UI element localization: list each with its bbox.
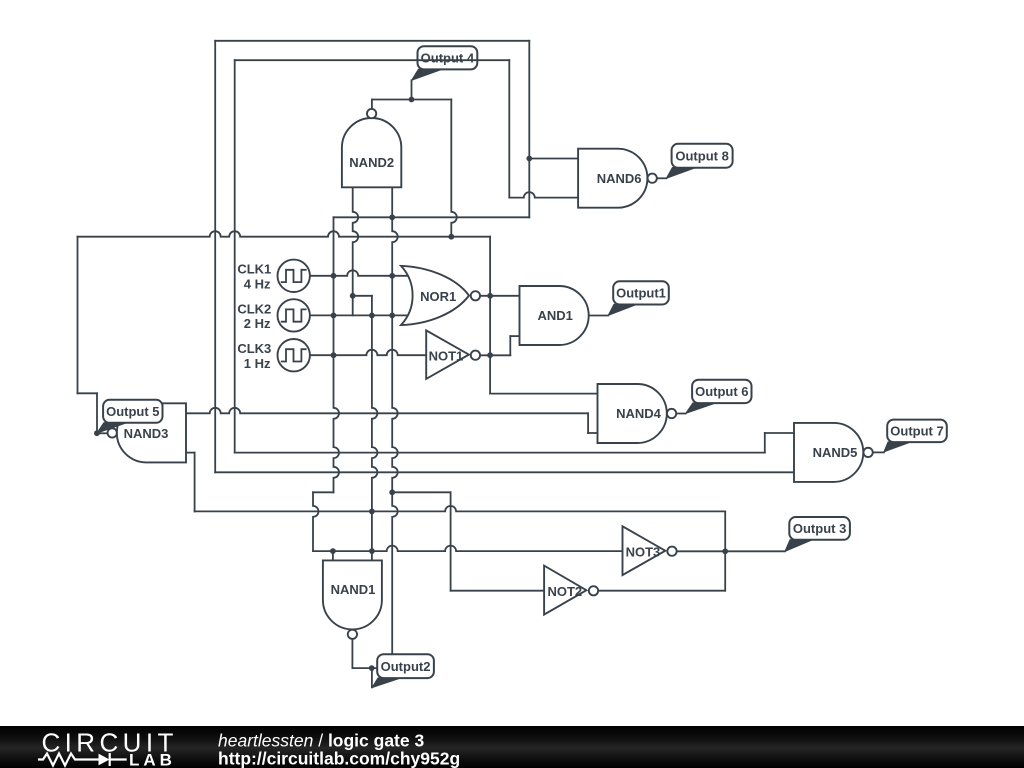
- svg-text:Output 5: Output 5: [106, 404, 159, 419]
- op-amp NAND3 gate: [108, 403, 186, 462]
- wire NOR/NOT output vertical x490: [489, 237, 491, 394]
- junction CLK2/x371: [369, 313, 375, 319]
- clock source CLK3 1Hz: [237, 339, 310, 371]
- op-amp AND1 gate: [520, 286, 589, 345]
- svg-text:NOT1: NOT1: [429, 349, 464, 364]
- flag Output 6: [686, 380, 752, 414]
- svg-text:NAND1: NAND1: [331, 582, 376, 597]
- wire NAND2 output row y99: [372, 99, 451, 101]
- junction NAND6 pin1: [526, 156, 532, 162]
- svg-text:1 Hz: 1 Hz: [244, 356, 271, 371]
- wire bus y236: [78, 231, 491, 236]
- op-amp NOT1 gate: [426, 330, 480, 379]
- svg-text:4 Hz: 4 Hz: [244, 276, 271, 291]
- wire NAND6 output: [657, 177, 667, 179]
- wire NAND3 out feed top: [78, 392, 98, 394]
- svg-text:Output 4: Output 4: [421, 51, 475, 66]
- svg-text:CLK1: CLK1: [237, 262, 271, 277]
- wire NAND2 pin1 chain x352: [353, 187, 359, 315]
- junction NAND1 pin1 bus: [330, 548, 336, 554]
- svg-text:heartlessten / logic gate 3: heartlessten / logic gate 3: [218, 731, 424, 751]
- wire bus y511 to NOT3 vertical: [195, 506, 726, 512]
- wire vertical x234: [234, 60, 236, 452]
- wire NAND6 pin1 y158: [529, 158, 578, 160]
- junction bus511/x371: [369, 509, 375, 515]
- wire NAND4 pin1 y393: [490, 393, 597, 395]
- svg-text:CLK2: CLK2: [237, 301, 271, 316]
- flag Output 5: [97, 400, 163, 433]
- junction CLK1/x333: [331, 273, 337, 279]
- op-amp NAND1 gate: [323, 560, 382, 639]
- wire elbow y492 x313-x333: [313, 491, 334, 493]
- wire Output2 flag stem: [371, 668, 373, 687]
- svg-text:Output 3: Output 3: [793, 521, 846, 536]
- wire NAND4 pin2 y433: [588, 432, 597, 434]
- footer title text: [218, 731, 460, 768]
- svg-text:NAND6: NAND6: [597, 171, 642, 186]
- junction CLK2/x333: [331, 313, 337, 319]
- svg-text:Output1: Output1: [616, 286, 666, 301]
- flag Output2: [372, 654, 434, 687]
- junction bus217/x392: [389, 214, 395, 220]
- junction NOT1 output: [487, 352, 493, 358]
- wire NAND5 jog vertical x764: [764, 433, 766, 453]
- wire NAND5 pin2 bus y472: [215, 471, 794, 473]
- op-amp NOT3 gate: [623, 526, 677, 575]
- wire right vertical x529 to NAND6 pin1: [528, 41, 530, 218]
- junction NOR1 output: [487, 293, 493, 299]
- clock source CLK1 4Hz: [237, 260, 310, 292]
- wire NAND4 output: [676, 413, 686, 415]
- wire AND1 pin2 jog vertical: [509, 336, 511, 355]
- junction node Output4 stem: [409, 97, 415, 103]
- wire NAND3 out feed drop: [96, 393, 98, 433]
- wire NAND1 input bus y551 to NOT3: [313, 546, 623, 552]
- wire NAND6 pin2 drop x509: [508, 60, 510, 197]
- junction x352 elbow: [350, 293, 356, 299]
- CircuitLab logo: [38, 728, 178, 768]
- wire NAND1 output elbow: [352, 640, 371, 669]
- wire Output4 flag stem: [411, 80, 413, 99]
- op-amp NOT2 gate: [544, 566, 598, 615]
- wire NOT2 input y590: [451, 590, 544, 592]
- wire NAND3 pin2 drop x194: [194, 453, 196, 512]
- svg-text:NOT2: NOT2: [547, 584, 582, 599]
- op-amp NAND5 gate: [794, 423, 873, 482]
- svg-text:NAND2: NAND2: [349, 155, 394, 170]
- wire NAND2 bubble stem: [371, 100, 373, 110]
- wire CLK3 row y355 to NOT1: [310, 350, 426, 355]
- wire CLK1 row y275: [310, 270, 408, 275]
- wire elbow y492 x392-x450: [392, 491, 450, 493]
- flag Output 4: [412, 46, 478, 80]
- svg-text:Output2: Output2: [381, 659, 431, 674]
- wire NOT2 output y590: [598, 590, 725, 592]
- wire NAND1 pin2 chain x371: [372, 296, 378, 561]
- svg-text:LAB: LAB: [129, 751, 176, 768]
- svg-text:NAND3: NAND3: [124, 426, 169, 441]
- junction CLK2/x392: [389, 313, 395, 319]
- svg-text:NAND5: NAND5: [813, 445, 858, 460]
- wire NAND5 output: [873, 451, 884, 453]
- wire bus y452 to NAND5 jog: [235, 452, 765, 454]
- wire drop x451: [451, 100, 457, 237]
- wire AND1 pin2 stub: [510, 335, 519, 337]
- wire NAND2 pin2 chain x392: [392, 187, 398, 668]
- wire CLK2 row y315: [310, 314, 408, 316]
- wire elbow vertical x313: [313, 492, 319, 551]
- wire bus y217: [334, 216, 530, 218]
- wire NOT1 output y355: [480, 354, 510, 356]
- wire NAND4 jog vertical x588: [587, 413, 589, 433]
- wire NAND5 pin1 y433: [765, 432, 794, 434]
- wire CLK chain vertical x333: [334, 217, 340, 492]
- junction NAND3 output node: [94, 430, 100, 436]
- flag Output 7: [884, 420, 947, 452]
- wire NAND1 pin1 stub: [332, 551, 334, 560]
- wire top bus (node Output4) y41: [215, 40, 529, 42]
- wire NOR1 output y295: [480, 295, 520, 297]
- clock source CLK2 2Hz: [237, 299, 310, 331]
- flag Output 8: [666, 144, 732, 179]
- svg-text:NOT3: NOT3: [626, 544, 661, 559]
- svg-text:2 Hz: 2 Hz: [244, 316, 271, 331]
- svg-text:CLK3: CLK3: [237, 341, 271, 356]
- svg-text:NOR1: NOR1: [420, 289, 456, 304]
- junction x392/y492: [389, 489, 395, 495]
- svg-text:Output 6: Output 6: [695, 384, 748, 399]
- wire left vertical x215: [214, 41, 216, 473]
- junction NAND1 pin2 bus: [369, 548, 375, 554]
- svg-text:Output 7: Output 7: [890, 424, 943, 439]
- wire far left vertical x77: [77, 237, 79, 394]
- svg-text:http://circuitlab.com/chy952g: http://circuitlab.com/chy952g: [218, 749, 460, 768]
- wire NOT3 output vertical x725: [724, 511, 726, 590]
- junction NOT3 output node: [722, 548, 728, 554]
- junction CLK3/x333: [331, 352, 337, 358]
- wire top bus 2 y60: [235, 59, 510, 61]
- junction Output2 node: [369, 665, 375, 671]
- op-amp NOR1 gate: [401, 266, 480, 325]
- wire NOT2 feed vertical x450: [450, 492, 452, 590]
- wire NOT3 output to Output3: [677, 550, 785, 552]
- wire NAND6 pin2 y197: [509, 192, 578, 197]
- junction bus236/x451: [448, 234, 454, 240]
- op-amp NAND4 gate: [598, 384, 677, 443]
- svg-text:NAND4: NAND4: [616, 406, 662, 421]
- op-amp NAND6 gate: [578, 149, 657, 208]
- wire elbow y295 x352-x371: [353, 295, 372, 297]
- wire Output2 row: [372, 667, 393, 669]
- junction CLK1/x392: [389, 273, 395, 279]
- CircuitLab footer bar: [0, 726, 1024, 768]
- flag Output1: [608, 281, 669, 315]
- flag Output 3: [785, 517, 850, 551]
- wire NAND3 pin1 bus y413: [186, 408, 588, 414]
- wire NAND3 output stub: [97, 432, 108, 434]
- op-amp NAND2 gate: [342, 109, 401, 187]
- wire NAND3 pin2 stub: [186, 452, 195, 454]
- svg-text:Output 8: Output 8: [675, 149, 728, 164]
- svg-text:AND1: AND1: [537, 308, 572, 323]
- wire AND1 output: [589, 315, 609, 317]
